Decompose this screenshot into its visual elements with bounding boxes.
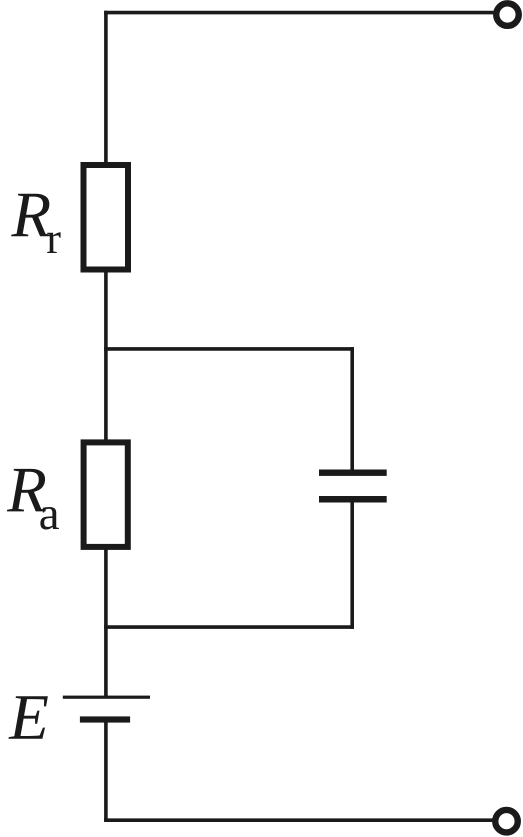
resistor Rr bbox=[84, 165, 129, 270]
battery E long plate bbox=[63, 696, 150, 699]
capacitor C top plate bbox=[319, 470, 387, 476]
wire bottom loop horizontal bbox=[104, 625, 354, 629]
capacitor C bottom plate bbox=[319, 496, 387, 503]
wire left vertical lower (battery to bottom) bbox=[104, 722, 108, 822]
wire left vertical (Ra to battery) bbox=[104, 549, 108, 697]
battery E short plate bbox=[80, 716, 130, 722]
wire middle junction horizontal (node to capacitor branch) bbox=[104, 347, 354, 351]
terminal top right bbox=[496, 3, 519, 26]
wire bottom horizontal bbox=[104, 818, 494, 822]
wire left vertical middle (Rr to Ra) bbox=[104, 272, 108, 441]
resistor Ra bbox=[84, 442, 128, 547]
terminal bottom right bbox=[495, 810, 518, 833]
label E bbox=[8, 696, 47, 739]
wire right branch vertical upper (to capacitor) bbox=[350, 347, 354, 470]
label Ra bbox=[7, 469, 46, 512]
wire right branch vertical lower (capacitor to bottom of loop) bbox=[350, 502, 354, 629]
wire top horizontal bbox=[104, 11, 494, 15]
label Rr bbox=[11, 194, 50, 237]
wire left vertical upper (top to Rr) bbox=[104, 11, 108, 163]
